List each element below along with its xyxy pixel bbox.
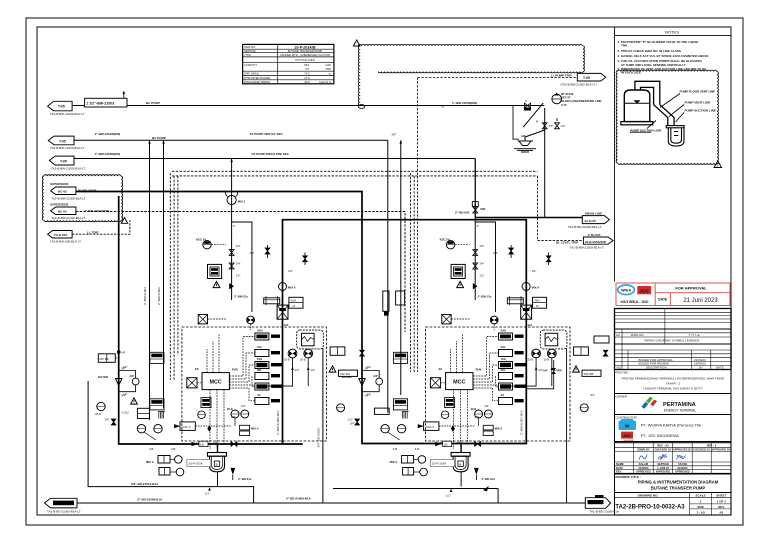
left edge extras train A bbox=[119, 352, 180, 428]
lower instrument cluster bbox=[137, 425, 145, 433]
svg-text:2A-B-05: 2A-B-05 bbox=[585, 219, 597, 223]
flag P right bottom bbox=[585, 498, 610, 509]
black diamond on signal drop bbox=[207, 425, 211, 431]
svg-text:5A PUMP UNIT BC SEC: 5A PUMP UNIT BC SEC bbox=[250, 132, 284, 136]
svg-text:T-05: T-05 bbox=[60, 159, 67, 163]
tank base slab bbox=[621, 122, 653, 125]
svg-text:LO: LO bbox=[200, 443, 204, 447]
MOV at drain corner bbox=[473, 207, 478, 213]
small box bbox=[137, 408, 149, 418]
instrument box HS bbox=[208, 264, 222, 278]
feed vertical from H3 bbox=[231, 159, 233, 301]
svg-text:MIX 2: MIX 2 bbox=[238, 200, 246, 204]
svg-text:2"-BW-21006: 2"-BW-21006 bbox=[157, 287, 161, 305]
svg-text:A/P: A/P bbox=[366, 365, 371, 369]
svg-text:W: W bbox=[625, 424, 630, 429]
svg-text:PIPING & INSTRUMENTATION DIAGR: PIPING & INSTRUMENTATION DIAGRAM bbox=[638, 480, 719, 485]
svg-text:SUPERSEDE: SUPERSEDE bbox=[50, 182, 69, 186]
ES instrument box upper bbox=[150, 352, 164, 363]
svg-text:WIKA: WIKA bbox=[621, 288, 631, 292]
flag T-05 top right bbox=[577, 73, 605, 81]
svg-text:TA2-B-BW-21005-B1A-LT: TA2-B-BW-21005-B1A-LT bbox=[51, 166, 86, 170]
notes text bbox=[618, 40, 709, 75]
JGC logo bbox=[637, 286, 651, 294]
dashed signal verticals train A bbox=[169, 173, 171, 380]
svg-text:20-B: 20-B bbox=[95, 412, 101, 416]
svg-text:BL LEVEL TRIP: BL LEVEL TRIP bbox=[556, 240, 578, 244]
svg-text:DISCHARGE PRESS.: DISCHARGE PRESS. bbox=[244, 80, 271, 84]
svg-text:2. TIPE BY CHECK DWG NO. IN LI: 2. TIPE BY CHECK DWG NO. IN LINE CLASS. bbox=[618, 49, 682, 53]
flag T-05 inlet line 1 bbox=[48, 101, 73, 111]
svg-text:A3: A3 bbox=[616, 333, 620, 337]
svg-text:20.9: 20.9 bbox=[304, 80, 310, 84]
svg-text:3/4"-BD-21010: 3/4"-BD-21010 bbox=[317, 427, 321, 447]
verticals from H2 corner (train B) bbox=[387, 140, 389, 412]
project box bbox=[615, 370, 732, 394]
svg-text:ES: ES bbox=[195, 367, 199, 371]
svg-text:T-05: T-05 bbox=[58, 105, 65, 109]
valve 2 on feed bbox=[229, 263, 234, 269]
flag recycle line bbox=[51, 207, 76, 215]
svg-text:20-B: 20-B bbox=[227, 407, 233, 411]
dashed signal pair D1 D2 bbox=[172, 170, 538, 172]
JGC red logo bbox=[621, 432, 633, 439]
svg-text:1: 1 bbox=[716, 164, 718, 168]
right cluster piping bbox=[526, 360, 553, 389]
owner box with PERTAMINA logo bbox=[615, 394, 732, 415]
svg-text:DWG NO: DWG NO bbox=[631, 333, 644, 337]
svg-text:BUTANE TRANSFER PUMP: BUTANE TRANSFER PUMP bbox=[288, 49, 323, 53]
instrument circle pair bbox=[247, 316, 255, 324]
dashed signal verticals train B bbox=[410, 173, 412, 372]
approval stamp red box bbox=[616, 283, 730, 306]
svg-text:OWNER :: OWNER : bbox=[616, 394, 629, 398]
flow arrow bbox=[174, 424, 180, 428]
svg-text:1/2": 1/2" bbox=[561, 124, 566, 128]
svg-text:TAF BB: TAF BB bbox=[584, 372, 594, 376]
right of train B components bbox=[574, 347, 589, 355]
check valve on thick vertical bbox=[116, 379, 122, 386]
svg-text:TAH: TAH bbox=[257, 357, 262, 361]
svg-text:MIX A: MIX A bbox=[146, 460, 154, 464]
dashed level trip to flag bbox=[538, 176, 584, 241]
svg-text:F: F bbox=[526, 99, 528, 103]
svg-text:21 Juni 2023: 21 Juni 2023 bbox=[683, 298, 718, 304]
pump can detail bbox=[666, 126, 684, 146]
svg-text:SCALE: SCALE bbox=[696, 494, 706, 498]
valve on feed bbox=[229, 250, 234, 256]
svg-text:TA2-B-BD-21009-B1A-LT: TA2-B-BD-21009-B1A-LT bbox=[47, 510, 81, 514]
wire H2 bbox=[74, 139, 388, 141]
equipment data table bbox=[243, 44, 334, 83]
svg-text:1/2x2: 1/2x2 bbox=[122, 411, 129, 415]
svg-text:KSC 5A: KSC 5A bbox=[196, 238, 206, 242]
narrow component box train B feed bbox=[383, 291, 389, 311]
svg-text:T-05: T-05 bbox=[583, 76, 590, 80]
train B outlet vertical bbox=[322, 348, 324, 503]
svg-text:REV. - A3: REV. - A3 bbox=[657, 443, 669, 447]
instrument cloud with converter bbox=[297, 330, 324, 349]
valve pair 3/4 bbox=[542, 123, 547, 129]
svg-text:2"-BW-21005-B1A: 2"-BW-21005-B1A bbox=[276, 410, 280, 435]
TAH box bbox=[289, 297, 303, 308]
H1 end: valve + check + PSV circle cluster bbox=[525, 103, 531, 108]
PI circle bbox=[97, 402, 105, 410]
svg-text:BC PUMP: BC PUMP bbox=[146, 101, 160, 105]
svg-text:21/06/23: 21/06/23 bbox=[677, 466, 688, 470]
svg-text:3/4": 3/4" bbox=[288, 269, 293, 273]
svg-text:2x3: 2x3 bbox=[284, 323, 289, 327]
MCC box bbox=[202, 373, 229, 390]
svg-text:CHECKED BY: CHECKED BY bbox=[654, 448, 671, 452]
svg-text:CONTRACTOR :: CONTRACTOR : bbox=[616, 415, 639, 419]
vent pipe from tank top bbox=[635, 81, 674, 125]
svg-text:20-P-203A/B: 20-P-203A/B bbox=[295, 46, 316, 50]
wire H5 dashed recycle bbox=[76, 212, 405, 333]
flag BL level trip bbox=[583, 237, 613, 244]
svg-text:1. PIG/TRK/TRIP "P" BC BUNKER: 1. PIG/TRK/TRIP "P" BC BUNKER VALVE TO T… bbox=[618, 40, 700, 44]
svg-text:INDONESIA: INDONESIA bbox=[624, 439, 635, 442]
revision cloud top bbox=[358, 44, 584, 105]
svg-text:TA2-B-BW-005-B1A-LT: TA2-B-BW-005-B1A-LT bbox=[50, 240, 81, 244]
svg-text:TA2-B-BW-21002-B1A-LT: TA2-B-BW-21002-B1A-LT bbox=[50, 112, 85, 116]
svg-text:kg/cm2 G: kg/cm2 G bbox=[320, 80, 332, 84]
svg-text:SERVICE: SERVICE bbox=[244, 49, 256, 53]
svg-text:REV: REV bbox=[718, 505, 724, 509]
svg-text:3/4": 3/4" bbox=[105, 418, 110, 422]
svg-text:KALAM: KALAM bbox=[639, 462, 648, 466]
MIX boxes bbox=[240, 425, 250, 430]
svg-text:APPROVED BY: APPROVED BY bbox=[712, 448, 731, 452]
PIF box bbox=[98, 354, 115, 363]
black valve on header bbox=[231, 442, 237, 447]
cloud triangle flag bbox=[353, 40, 360, 46]
svg-text:SAH: SAH bbox=[257, 329, 263, 333]
svg-text:1/2": 1/2" bbox=[446, 494, 451, 498]
NP valve dot bbox=[117, 350, 121, 354]
seal pot boxes bbox=[158, 456, 170, 464]
svg-text:PT. WIJAYA KARYA (Persero) Tbk: PT. WIJAYA KARYA (Persero) Tbk bbox=[641, 422, 702, 427]
svg-text:NP: NP bbox=[122, 351, 126, 355]
wire H1 butane line bbox=[72, 105, 544, 107]
pump outlet down bbox=[217, 472, 219, 487]
svg-text:TAH: TAH bbox=[291, 299, 296, 303]
svg-text:1/2": 1/2" bbox=[205, 492, 210, 496]
instrument circle under MCC bbox=[198, 411, 206, 419]
dashed drops MCC top bbox=[206, 349, 208, 373]
svg-text:CANNED MTR., SUBMERGED SUCTION: CANNED MTR., SUBMERGED SUCTION bbox=[280, 53, 330, 57]
cloud corner triangle bbox=[714, 161, 722, 168]
svg-text:68.1: 68.1 bbox=[304, 63, 310, 67]
svg-text:1/2": 1/2" bbox=[213, 441, 219, 445]
svg-text:3/4"-BD-21010-B1A: 3/4"-BD-21010-B1A bbox=[131, 482, 159, 486]
svg-text:3-B: 3-B bbox=[149, 447, 153, 451]
svg-text:(TA2-B-BW-21002-B1A-LT): (TA2-B-BW-21002-B1A-LT) bbox=[560, 83, 596, 87]
svg-text:FOR APPROVAL: FOR APPROVAL bbox=[675, 286, 707, 291]
svg-text:BUTANE TRANSFER PUMP: BUTANE TRANSFER PUMP bbox=[651, 486, 706, 491]
svg-text:NAME: NAME bbox=[616, 462, 624, 466]
svg-text:SAL: SAL bbox=[257, 345, 263, 349]
svg-text:4"-BW-21005(BW): 4"-BW-21005(BW) bbox=[95, 152, 120, 156]
svg-text:PIF BA: PIF BA bbox=[100, 357, 109, 361]
mcc-pump extras train A bbox=[192, 398, 238, 447]
svg-text:1"-BW-21006(BW): 1"-BW-21006(BW) bbox=[452, 101, 477, 105]
svg-text:1 : A3: 1 : A3 bbox=[697, 510, 705, 514]
svg-text:DIFF. HEAD: DIFF. HEAD bbox=[244, 72, 259, 76]
svg-text:APPROVED: APPROVED bbox=[656, 470, 671, 474]
detail cloud boundary bbox=[616, 70, 718, 164]
svg-text:2"-BD-21009-B1A: 2"-BD-21009-B1A bbox=[137, 498, 163, 502]
detail sketch: accumulator tank bbox=[624, 90, 650, 122]
svg-text:2"-BD-21x: 2"-BD-21x bbox=[238, 477, 252, 481]
drain branch vertical bbox=[544, 108, 546, 218]
svg-text:3/4": 3/4" bbox=[392, 133, 397, 137]
svg-text:20-B-005A/20B: 20-B-005A/20B bbox=[585, 240, 607, 244]
svg-text:ITEM NO: ITEM NO bbox=[244, 45, 255, 49]
branch to analyzer bbox=[232, 222, 252, 312]
svg-text:RUN: RUN bbox=[232, 368, 238, 372]
svg-text:A/P: A/P bbox=[250, 251, 255, 255]
svg-text:POT ISOLATED: POT ISOLATED bbox=[295, 58, 314, 62]
svg-text:2-TK-005: 2-TK-005 bbox=[588, 233, 601, 237]
svg-text:1/2": 1/2" bbox=[310, 368, 315, 372]
svg-text:PERTAMINA: PERTAMINA bbox=[663, 402, 696, 408]
svg-text:A/P: A/P bbox=[130, 374, 135, 378]
svg-text:APPROVED BY: APPROVED BY bbox=[673, 448, 692, 452]
flag T-05 inlet line 2 bbox=[48, 136, 74, 145]
svg-text:20-P-203A: 20-P-203A bbox=[188, 462, 202, 466]
XV box upper bbox=[198, 315, 207, 324]
svg-text:TRK.: TRK. bbox=[621, 44, 628, 48]
svg-text:0.7V: 0.7V bbox=[561, 103, 567, 107]
svg-text:1 OF 1: 1 OF 1 bbox=[717, 499, 727, 503]
svg-text:CAPACITY: CAPACITY bbox=[244, 63, 257, 67]
svg-text:TA2-B-BD-21009-B1A: TA2-B-BD-21009-B1A bbox=[590, 509, 619, 513]
drawing number box bbox=[615, 493, 732, 516]
svg-text:DATE: DATE bbox=[616, 466, 623, 470]
wire H3 bbox=[74, 158, 475, 160]
dashed vertical S15 bbox=[417, 78, 419, 373]
svg-text:2"-BW-21007-B1A: 2"-BW-21007-B1A bbox=[520, 410, 524, 435]
svg-text:MPa: MPa bbox=[325, 67, 331, 71]
svg-text:PUMP VENT LINE: PUMP VENT LINE bbox=[685, 101, 711, 105]
svg-text:TA2-B-BW-21008-B1A-LT: TA2-B-BW-21008-B1A-LT bbox=[51, 196, 86, 200]
wire LL trip dashed bbox=[72, 220, 130, 234]
svg-text:TA2-2B-PRO-10-0032-A3: TA2-2B-PRO-10-0032-A3 bbox=[615, 504, 685, 510]
svg-text:3/4": 3/4" bbox=[236, 262, 241, 266]
NOTES header bar bbox=[615, 35, 732, 37]
svg-text:20-B: 20-B bbox=[300, 358, 306, 362]
svg-text:MCC: MCC bbox=[210, 380, 222, 386]
line label box 1 1/2"-BW-21003 bbox=[85, 98, 127, 107]
svg-text:DRAWING TITLE :: DRAWING TITLE : bbox=[616, 475, 642, 479]
ES instrument box lower bbox=[150, 399, 164, 410]
pertamina arrows logo bbox=[641, 396, 657, 408]
leader labels in detail bbox=[630, 90, 716, 133]
svg-text:TAHAP - 2: TAHAP - 2 bbox=[666, 382, 680, 386]
svg-text:A/P: A/P bbox=[366, 393, 371, 397]
suction pot bbox=[264, 298, 280, 304]
svg-text:A3: A3 bbox=[719, 510, 723, 514]
WIKA blue logo bbox=[619, 419, 637, 430]
inline filter on riser bbox=[277, 305, 288, 319]
svg-text:1/2": 1/2" bbox=[348, 418, 353, 422]
svg-text:3/4": 3/4" bbox=[241, 404, 246, 408]
motor XV box bbox=[187, 378, 197, 388]
svg-text:3. GASKEL SELF ACT VLV. BY SPA: 3. GASKEL SELF ACT VLV. BY SPARE JACK DI… bbox=[618, 54, 709, 58]
flag T-05 inlet line 3 bbox=[49, 156, 74, 165]
svg-text:2"-BW-21x: 2"-BW-21x bbox=[234, 295, 248, 299]
svg-text:B: B bbox=[216, 462, 218, 466]
svg-text:T-05: T-05 bbox=[59, 139, 66, 143]
svg-text:74.5: 74.5 bbox=[304, 72, 310, 76]
instrument circles under cloud bbox=[288, 349, 297, 358]
svg-text:JGC: JGC bbox=[639, 288, 649, 293]
triangle under cloud bbox=[121, 218, 127, 224]
svg-text:3-B: 3-B bbox=[171, 447, 175, 451]
check valve on feed bbox=[229, 283, 234, 289]
pump A outlet header S9 bbox=[88, 381, 254, 503]
svg-text:DATE: DATE bbox=[658, 298, 668, 302]
contractor box bbox=[615, 415, 732, 442]
svg-text:8x6 BW: 8x6 BW bbox=[342, 375, 352, 379]
svg-text:20-B: 20-B bbox=[284, 358, 290, 362]
tank level marker bbox=[634, 100, 641, 103]
svg-text:JGC: JGC bbox=[623, 433, 631, 438]
svg-text:3/4": 3/4" bbox=[350, 422, 355, 426]
wire H6 thick drain line bbox=[475, 217, 582, 219]
svg-text:2"-BW-21003(BW): 2"-BW-21003(BW) bbox=[95, 132, 120, 136]
train B pump drain to bottom header bbox=[333, 488, 498, 490]
svg-text:DRAIN LINE: DRAIN LINE bbox=[585, 211, 602, 215]
svg-text:T I T L E: T I T L E bbox=[688, 333, 699, 337]
svg-text:HC: HC bbox=[441, 104, 445, 108]
svg-text:TA2-B-BD-21008-B1A-LT: TA2-B-BD-21008-B1A-LT bbox=[568, 225, 602, 229]
middle components between trains bbox=[330, 347, 345, 355]
wire H4 thick vent header bbox=[76, 192, 526, 445]
svg-text:8x6 BW: 8x6 BW bbox=[98, 375, 108, 379]
black valve 2 bbox=[303, 256, 308, 262]
svg-text:4"-BW-21010(BW): 4"-BW-21010(BW) bbox=[84, 209, 109, 213]
svg-text:REV. - 0: REV. - 0 bbox=[707, 443, 717, 447]
flow arrow on suction header bbox=[192, 442, 198, 446]
svg-text:3/4": 3/4" bbox=[121, 366, 126, 370]
svg-text:XA: XA bbox=[257, 393, 261, 397]
svg-text:PROYEK :: PROYEK : bbox=[616, 370, 630, 374]
black triangle valve right of pump bbox=[230, 468, 235, 475]
svg-text:REV: REV bbox=[616, 470, 622, 474]
svg-text:APPROVED: APPROVED bbox=[636, 470, 651, 474]
svg-text:NOTES: NOTES bbox=[665, 29, 679, 34]
svg-text:A/P: A/P bbox=[543, 369, 548, 373]
svg-text:APPROVED: APPROVED bbox=[675, 470, 690, 474]
svg-text:MIX: MIX bbox=[481, 207, 486, 211]
svg-text:C5 PUMP DISCH PRE SEC: C5 PUMP DISCH PRE SEC bbox=[252, 152, 290, 156]
svg-text:CSC A: CSC A bbox=[182, 425, 191, 429]
svg-text:1 1/2"-BW-21003: 1 1/2"-BW-21003 bbox=[86, 102, 114, 106]
svg-text:BC-05: BC-05 bbox=[58, 190, 67, 194]
bottom long header S10 bbox=[45, 498, 78, 508]
supersede cloud region bbox=[42, 175, 122, 222]
flag vent line bbox=[51, 187, 76, 195]
svg-text:ENERGY TERMINAL: ENERGY TERMINAL bbox=[664, 409, 696, 413]
svg-text:PT. JGC INDONESIA: PT. JGC INDONESIA bbox=[641, 433, 679, 438]
svg-text:2"-BD-21009-B1A: 2"-BD-21009-B1A bbox=[286, 497, 312, 501]
canned motor pump bbox=[217, 444, 219, 453]
svg-text:PUMP SUCTION LINE: PUMP SUCTION LINE bbox=[685, 109, 717, 113]
svg-text:MIX A: MIX A bbox=[288, 286, 296, 290]
svg-text:m3/h: m3/h bbox=[325, 63, 331, 67]
svg-text:YACOB: YACOB bbox=[678, 462, 687, 466]
svg-text:2"-BW-21004: 2"-BW-21004 bbox=[143, 287, 147, 305]
svg-text:MIX A: MIX A bbox=[251, 427, 259, 431]
blue signatures bbox=[639, 454, 686, 460]
drawing title box bbox=[615, 474, 732, 493]
MIX2 control valve on H4 riser area bbox=[226, 192, 246, 205]
dashed drops MCC bottom bbox=[209, 390, 211, 449]
svg-text:TA2-B-BW-21005-B1A-LT: TA2-B-BW-21005-B1A-LT bbox=[570, 246, 605, 250]
svg-text:PIPING DIAGRAM / SYMBOL LEGEND: PIPING DIAGRAM / SYMBOL LEGENDS bbox=[644, 339, 699, 343]
svg-text:2"-BD-005: 2"-BD-005 bbox=[455, 211, 470, 215]
LO tag on header bbox=[199, 441, 208, 446]
svg-text:DRWN BY: DRWN BY bbox=[637, 448, 650, 452]
svg-text:DRAWING NO.: DRAWING NO. bbox=[638, 494, 659, 498]
flag LL TRIP bbox=[48, 231, 73, 239]
svg-text:SHEET: SHEET bbox=[716, 494, 726, 498]
pump tag box bbox=[187, 460, 211, 467]
minimum-flow bypass loop bbox=[119, 371, 136, 379]
svg-text:PROYEK PEMBANGUNAN TERMINAL LP: PROYEK PEMBANGUNAN TERMINAL LPG REFRIGER… bbox=[622, 377, 726, 381]
dashed LL pump trip to T-05 bbox=[418, 77, 578, 79]
svg-text:PUMP FLOOD VENT LINE: PUMP FLOOD VENT LINE bbox=[680, 90, 716, 94]
svg-text:21/06/23: 21/06/23 bbox=[638, 466, 649, 470]
train boundary dashed bbox=[182, 327, 327, 441]
svg-text:A/P: A/P bbox=[558, 369, 563, 373]
black bar above flag bbox=[595, 495, 604, 498]
svg-text:LL PUMP TRIP: LL PUMP TRIP bbox=[551, 74, 572, 78]
svg-text:TYPE: TYPE bbox=[244, 53, 251, 57]
warning triangle below HS bbox=[213, 281, 220, 287]
dashed fan from MCC to stack bbox=[229, 337, 255, 401]
svg-text:TA2-B-BW-21010-B1A-LT: TA2-B-BW-21010-B1A-LT bbox=[51, 216, 86, 220]
KSC instrument circle bbox=[203, 241, 211, 249]
verticals from H2 down (train A suction) bbox=[149, 140, 151, 420]
relay box under MCC bbox=[201, 398, 211, 408]
svg-text:SUPERSEDE: SUPERSEDE bbox=[50, 203, 69, 207]
svg-text:27.5: 27.5 bbox=[304, 76, 310, 80]
svg-text:TA2-B-BW-21003-B1A-LT: TA2-B-BW-21003-B1A-LT bbox=[50, 146, 85, 150]
svg-text:CHECKED BY: CHECKED BY bbox=[693, 448, 710, 452]
svg-text:BC PUMP: BC PUMP bbox=[152, 136, 166, 140]
svg-text:3/4": 3/4" bbox=[590, 393, 595, 397]
svg-text:PAL: PAL bbox=[257, 368, 262, 372]
svg-text:KSO WIKA - JNO: KSO WIKA - JNO bbox=[620, 300, 648, 304]
svg-text:BC-05: BC-05 bbox=[58, 210, 67, 214]
CSC box bbox=[180, 422, 195, 431]
sample circles mid bbox=[231, 410, 239, 418]
relay box stack bbox=[255, 333, 269, 405]
notes box divider bbox=[614, 27, 616, 282]
svg-text:3/4": 3/4" bbox=[121, 394, 126, 398]
svg-text:BLOW CASE/PRESSURE LINE: BLOW CASE/PRESSURE LINE bbox=[561, 99, 602, 103]
coil comb bbox=[158, 412, 165, 419]
WIKA logo bbox=[618, 285, 635, 295]
svg-text:1 JUNI 23: 1 JUNI 23 bbox=[657, 466, 669, 470]
svg-text:3/4": 3/4" bbox=[236, 244, 241, 248]
svg-text:TA-B-05A: TA-B-05A bbox=[54, 233, 68, 237]
svg-text:2.0: 2.0 bbox=[305, 67, 309, 71]
svg-text:3/4": 3/4" bbox=[549, 124, 554, 128]
